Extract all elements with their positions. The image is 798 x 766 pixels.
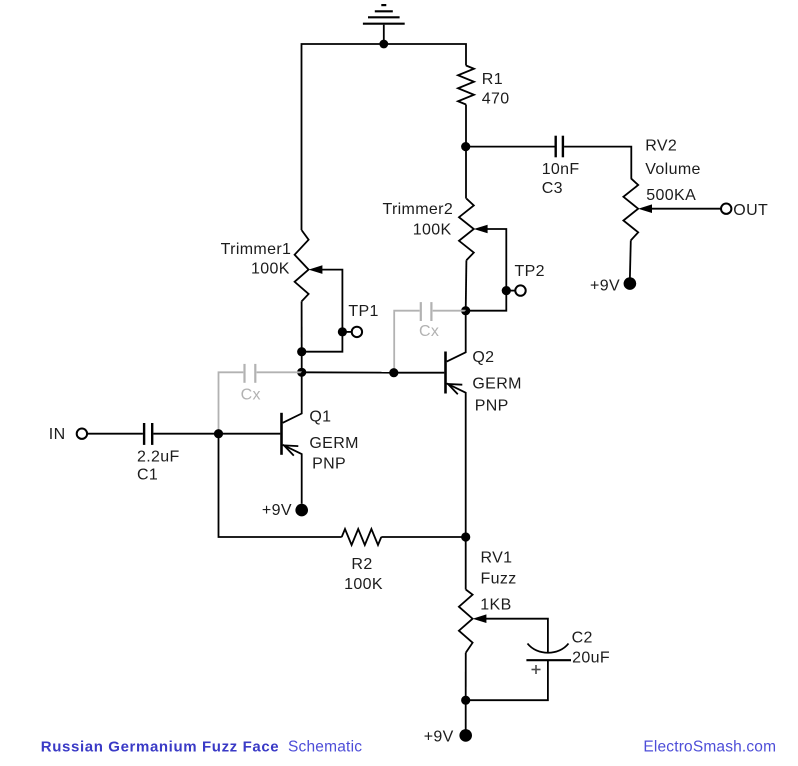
- +9V bottom terminal: [459, 729, 472, 742]
- node F: [461, 696, 470, 705]
- wire R2 to node E: [381, 536, 465, 538]
- svg-text:GERM: GERM: [309, 435, 358, 452]
- potentiometer RV2 500KA: [623, 178, 638, 240]
- wire trimmer1 wiper loop: [302, 270, 343, 352]
- svg-text:R1: R1: [482, 71, 503, 88]
- wire C2 bottom to node F: [466, 660, 548, 700]
- capacitor C1 2.2uF: [144, 423, 152, 445]
- wire trimmer2 bottom to node C: [465, 260, 468, 311]
- svg-text:Fuzz: Fuzz: [481, 571, 517, 588]
- svg-text:Q2: Q2: [472, 349, 494, 366]
- svg-text:TP1: TP1: [348, 303, 378, 320]
- wire node F to +9V: [465, 700, 467, 729]
- svg-text:PNP: PNP: [312, 455, 346, 472]
- wire top rail: [302, 44, 467, 230]
- resistor R1: [458, 66, 474, 105]
- +9V Q1 emitter terminal: [295, 504, 308, 517]
- wire Q2 base junction to Q2: [394, 372, 445, 374]
- svg-text:+9V: +9V: [424, 728, 454, 745]
- wire trimmer1 bottom to node A: [301, 301, 303, 351]
- transistor Q1 GERM PNP: [282, 372, 302, 504]
- wire R1 to node: [465, 105, 467, 147]
- svg-text:100K: 100K: [251, 261, 290, 278]
- wire RV2 bottom to +9V: [629, 240, 632, 277]
- svg-text:RV1: RV1: [481, 549, 513, 566]
- node OUT terminal: [721, 204, 731, 214]
- svg-text:Cx: Cx: [241, 387, 261, 404]
- svg-text:+9V: +9V: [262, 502, 292, 519]
- svg-text:R2: R2: [351, 556, 372, 573]
- svg-text:+9V: +9V: [590, 278, 620, 295]
- svg-text:470: 470: [482, 90, 510, 107]
- svg-text:Trimmer2: Trimmer2: [382, 201, 453, 218]
- svg-text:RV2: RV2: [645, 138, 677, 155]
- wire C1 to node D: [153, 433, 218, 435]
- trimmer Trimmer2 100K: [465, 147, 467, 199]
- node TP1 tap: [338, 327, 347, 336]
- svg-text:IN: IN: [49, 426, 66, 443]
- svg-text:Volume: Volume: [645, 161, 700, 178]
- svg-text:C2: C2: [572, 630, 593, 647]
- svg-text:GERM: GERM: [472, 375, 521, 392]
- potentiometer RV1 Fuzz 1KB: [465, 537, 467, 590]
- node B Q1 collector / Q2 base: [297, 368, 306, 377]
- wire TP2 stub: [506, 290, 515, 292]
- wire node A to node B: [301, 352, 303, 373]
- svg-text:TP2: TP2: [515, 263, 545, 280]
- node TP2 terminal: [515, 285, 525, 295]
- wire TP1 stub: [342, 331, 351, 333]
- node C Q2 collector: [461, 306, 470, 315]
- transistor Q2 GERM PNP: [446, 311, 466, 537]
- wire trimmer2 wiper loop: [466, 229, 507, 311]
- svg-text:1KB: 1KB: [480, 596, 511, 613]
- svg-text:OUT: OUT: [733, 202, 768, 219]
- node D Q1 base node: [214, 429, 223, 438]
- capacitor Cx2 (gray): [394, 302, 466, 373]
- svg-text:10nF: 10nF: [542, 161, 580, 178]
- node Q2 base junction: [389, 368, 398, 377]
- svg-text:Q1: Q1: [309, 409, 331, 426]
- wire node D to Q1 base: [219, 433, 281, 435]
- svg-text:2.2uF: 2.2uF: [137, 448, 180, 465]
- svg-text:Russian Germanium Fuzz Face: Russian Germanium Fuzz Face: [41, 738, 279, 755]
- svg-text:100K: 100K: [413, 222, 452, 239]
- node A: [297, 347, 306, 356]
- wire node B to Q2 base junction: [302, 371, 394, 373]
- wire RV1 bottom to node F: [465, 653, 467, 701]
- node R1/C3: [461, 142, 470, 151]
- ground: [363, 5, 405, 44]
- wire IN to C1: [87, 433, 142, 435]
- svg-text:ElectroSmash.com: ElectroSmash.com: [643, 738, 776, 755]
- capacitor C3: [556, 136, 563, 158]
- node ground junction: [379, 40, 388, 49]
- node TP2 tap: [502, 286, 511, 295]
- svg-text:C1: C1: [137, 467, 158, 484]
- node TP1 terminal: [352, 327, 362, 337]
- svg-text:Cx: Cx: [419, 323, 439, 340]
- wire RV2 wiper to OUT: [651, 208, 721, 210]
- wire RV1 wiper to C2: [486, 619, 548, 653]
- svg-text:500KA: 500KA: [646, 187, 696, 204]
- wire C3 to RV2: [564, 147, 631, 179]
- svg-text:Schematic: Schematic: [288, 738, 362, 755]
- svg-text:Trimmer1: Trimmer1: [221, 241, 292, 258]
- trimmer Trimmer1 100K: [295, 230, 309, 301]
- svg-text:20uF: 20uF: [572, 650, 610, 667]
- +9V RV2 terminal: [624, 277, 637, 290]
- node E Q2 emitter / R2 / RV1: [461, 532, 470, 541]
- resistor R2 100K: [342, 529, 382, 545]
- svg-text:100K: 100K: [344, 576, 383, 593]
- svg-text:C3: C3: [542, 180, 563, 197]
- svg-text:PNP: PNP: [475, 397, 509, 414]
- wire node to C3: [466, 146, 555, 148]
- capacitor Cx1 (gray): [219, 364, 302, 434]
- capacitor C2 20uF: [528, 644, 569, 653]
- wire node D down to R2 rail: [219, 434, 342, 537]
